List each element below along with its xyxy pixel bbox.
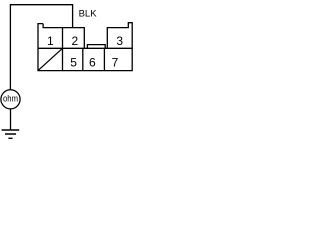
svg-text:5: 5 (70, 55, 77, 69)
svg-text:BLK: BLK (79, 8, 98, 19)
wire divider pin1/pin2 and diag/5 (62, 28, 64, 71)
svg-text:7: 7 (112, 55, 119, 69)
connector C outline with top tabs and open latch slot (38, 23, 132, 71)
svg-text:6: 6 (89, 55, 96, 69)
svg-text:3: 3 (116, 34, 123, 48)
svg-text:1: 1 (47, 34, 54, 48)
wire row divider of connector (38, 47, 132, 49)
svg-text:2: 2 (72, 34, 79, 48)
unused cavity diagonal (38, 48, 63, 70)
wire divider pin5/pin6 (82, 48, 84, 70)
wire divider pin6/pin7 (103, 48, 105, 70)
ohmmeter M1 circle (1, 90, 20, 109)
wire BLK: from ohmmeter up, across top, down to pin 2 (10, 5, 72, 90)
wire ohmmeter to ground (10, 109, 12, 130)
latch tab rectangle (87, 45, 105, 49)
ground G1 (2, 130, 20, 138)
svg-text:ohm: ohm (3, 93, 18, 103)
